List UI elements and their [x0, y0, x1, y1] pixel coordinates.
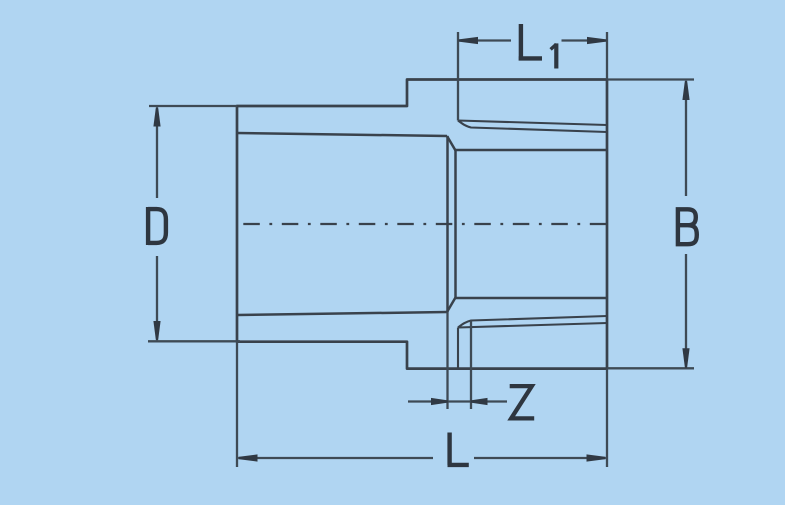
- dim L1 extension right: [606, 32, 608, 80]
- dim Z extension left: [446, 312, 448, 409]
- dim B extension top: [607, 78, 694, 80]
- arrow Z right (points left): [471, 398, 488, 405]
- dim B extension bottom: [607, 367, 694, 369]
- dim Z line: [408, 400, 507, 402]
- arrow B top: [682, 81, 689, 100]
- centerline: [243, 223, 606, 225]
- arrow D bottom: [153, 321, 160, 340]
- thread start vertical bottom: [457, 328, 459, 369]
- bore bottom line: [456, 297, 608, 300]
- arrow L right: [587, 454, 606, 461]
- socket inner wall top: [237, 133, 447, 136]
- socket inner wall bottom: [237, 312, 447, 315]
- label D: [148, 207, 166, 245]
- arrow D top: [153, 107, 160, 126]
- dim D extension bottom: [148, 340, 240, 342]
- dim L1 line: [459, 39, 606, 41]
- arrow L1 left: [459, 37, 478, 44]
- dim D line: [156, 109, 158, 339]
- dim Z extension right: [470, 321, 472, 410]
- bore shoulder vertical: [454, 151, 457, 298]
- thread taper wedge top: [458, 121, 607, 133]
- dim B line: [685, 83, 687, 365]
- socket shoulder vertical: [446, 136, 449, 312]
- label L1: [519, 24, 542, 58]
- label Z: [510, 386, 535, 418]
- arrow L1 right: [587, 37, 606, 44]
- body outer profile: [237, 80, 607, 369]
- arrow B bottom: [682, 348, 689, 367]
- thread taper wedge bottom: [458, 316, 607, 328]
- socket chamfer bottom: [447, 298, 456, 313]
- arrow L left: [238, 454, 257, 461]
- arrow Z left (points right): [431, 398, 448, 405]
- dim L extension left: [236, 342, 238, 467]
- dim L line: [239, 457, 605, 459]
- dim L1 extension left / thread start line: [457, 32, 459, 121]
- socket chamfer top: [447, 136, 456, 151]
- label L: [448, 433, 469, 465]
- bore top line: [456, 149, 608, 152]
- dim D extension top: [149, 105, 237, 107]
- label B: [678, 207, 697, 246]
- dim L extension right: [606, 369, 608, 467]
